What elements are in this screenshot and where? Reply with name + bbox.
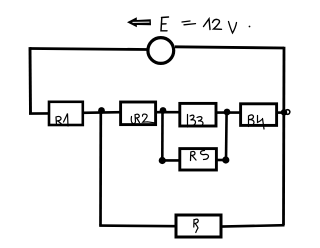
label R4 — [249, 115, 265, 129]
label 1 — [204, 19, 211, 30]
R5 right junction dot — [222, 156, 229, 163]
wire node C down to R5 — [225, 112, 228, 160]
wire top-left segment — [30, 49, 147, 50]
label V — [229, 22, 237, 34]
wire R3 to R4 — [216, 111, 241, 114]
label E — [161, 17, 169, 31]
R5 left junction dot — [159, 157, 166, 164]
arrow current direction — [127, 17, 151, 27]
wire bottom horizontal left — [99, 224, 176, 227]
resistor R3 — [180, 103, 216, 126]
stray dot — [249, 26, 251, 28]
node B junction — [160, 107, 167, 114]
wire R4 to node D — [277, 111, 283, 114]
label R2 — [131, 114, 154, 124]
resistor R5 — [180, 149, 217, 170]
wire R2 to R3 — [155, 111, 181, 114]
wire left to R1 — [29, 112, 50, 115]
node A junction — [98, 107, 105, 114]
resistor R1 — [49, 102, 83, 125]
node D blob circle — [285, 110, 290, 115]
resistor R2 — [121, 102, 156, 125]
wire node A down to bottom loop — [99, 110, 102, 226]
label R3 — [188, 115, 204, 128]
voltage source E circle — [148, 38, 174, 64]
arrow white slit — [133, 21, 150, 23]
label R1 — [56, 114, 68, 127]
node D junction — [281, 109, 287, 115]
wire R5 left stub — [162, 159, 180, 162]
wire node B down to R5 — [161, 111, 164, 160]
wire R1 to R2 — [83, 111, 121, 114]
label R — [194, 219, 199, 232]
resistor R4 — [241, 104, 277, 126]
label 2 — [213, 19, 222, 29]
wire top-right segment — [175, 47, 284, 48]
wire bottom horizontal right — [221, 225, 285, 226]
label equals — [182, 21, 196, 25]
wire left vertical — [29, 47, 32, 114]
label R5 — [191, 151, 209, 161]
wire R5 right stub — [217, 159, 226, 162]
node C junction — [224, 109, 231, 116]
wire right vertical — [282, 47, 285, 226]
resistor R bottom — [176, 215, 221, 237]
